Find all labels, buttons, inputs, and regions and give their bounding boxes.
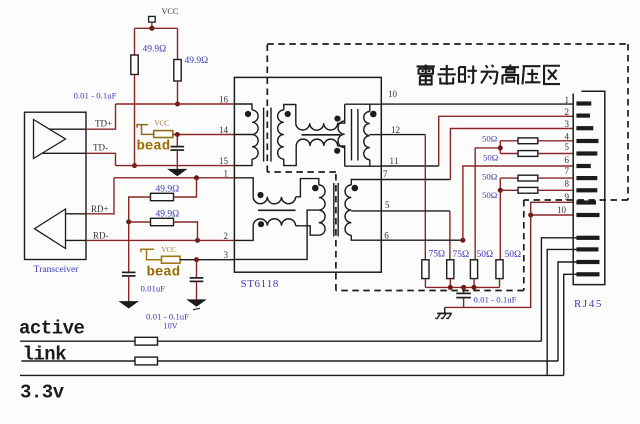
resistor R1 49.9ohm body [131, 55, 138, 75]
wire pair45 node to R7 [475, 148, 500, 260]
capacitor C1 [171, 146, 185, 148]
junction pair45 node [498, 145, 503, 150]
svg-text:bead: bead [137, 139, 171, 155]
capacitor C1 lead [176, 135, 178, 147]
wire C4 to chassis [445, 298, 464, 308]
svg-text:14: 14 [219, 125, 229, 135]
svg-text:7: 7 [383, 169, 388, 179]
resistor R6 75ohm body [447, 260, 454, 279]
T3 left winding [319, 185, 325, 235]
wire RD- pin2 line [86, 239, 234, 241]
wire RJ45 pin9 shield [531, 202, 574, 215]
wire RJ5 left lead [500, 153, 518, 155]
svg-text:RD-: RD- [93, 230, 109, 240]
svg-text:3: 3 [224, 250, 229, 260]
junction pin6 corner [460, 238, 465, 243]
transformer ST6118 box [234, 77, 381, 272]
wire pin7 stub [381, 179, 450, 181]
resistor R10 body [135, 357, 158, 365]
capacitor C3 [190, 277, 204, 279]
junction VCC rail [149, 26, 154, 31]
wire pin11 riser to RJ45 pin2 [439, 116, 574, 166]
svg-text:VCC: VCC [162, 246, 177, 254]
T2 left winding [338, 121, 345, 148]
wire C2 to ground [128, 276, 130, 302]
svg-text:75Ω: 75Ω [429, 250, 446, 260]
svg-text:active: active [19, 318, 85, 340]
title qu (zone) [544, 66, 560, 84]
wire R2 to pin16 line [177, 81, 179, 104]
svg-text:1: 1 [565, 95, 570, 105]
svg-text:49.9Ω: 49.9Ω [156, 209, 180, 219]
wire 3.3v line [20, 374, 564, 376]
wire chassis to RJ45 shield [464, 215, 531, 307]
choke CM1 core bar [302, 134, 341, 136]
T1 secondary winding [278, 110, 284, 159]
wire T2 right top to pin10 [369, 104, 371, 111]
svg-text:11: 11 [390, 156, 399, 166]
junction R4 on rail [126, 219, 131, 224]
junction R2 on pin16 line [175, 102, 180, 107]
power VCC terminal [149, 16, 156, 22]
svg-text:10: 10 [388, 89, 398, 99]
resistor R5 75ohm body [422, 260, 429, 279]
wire RJ4 left lead [500, 140, 518, 142]
wire R4 right lead to pin2 [174, 222, 198, 240]
wire VCC rail [135, 27, 178, 29]
svg-text:8: 8 [565, 178, 570, 188]
wire 3.3v riser A [547, 249, 578, 375]
T3 left dot [312, 185, 319, 192]
capacitor C4 [456, 292, 471, 294]
RJ45 contact bar 11 [576, 236, 599, 240]
wire link riser [558, 262, 578, 361]
wire T3 right top to pin7 [351, 180, 381, 186]
T2 core [351, 109, 353, 161]
wire TD- stub [42, 152, 86, 154]
title shi (time) [459, 66, 477, 84]
wire C1 to ground [176, 150, 178, 169]
wire C3 to ground [196, 281, 198, 299]
junction R1 on pin15 line [132, 163, 137, 168]
wire pin5 center tap [351, 210, 381, 212]
wire Rd to RJ45 pin8 [538, 189, 573, 191]
choke CM2 bottom dot [258, 221, 264, 227]
T1 primary dot [245, 111, 251, 117]
junction tie R6 [448, 285, 453, 290]
svg-text:0.01uF: 0.01uF [141, 284, 166, 294]
wire pin1 into box to choke CM2 [234, 178, 253, 197]
svg-text:3.3v: 3.3v [20, 382, 65, 404]
svg-text:12: 12 [391, 125, 400, 135]
wire pin11 stub [381, 165, 438, 167]
svg-text:5: 5 [565, 142, 570, 152]
capacitor C2 [122, 271, 136, 273]
T1 primary winding [252, 110, 258, 159]
RJ45 connector body [573, 91, 605, 284]
svg-text:75Ω: 75Ω [453, 250, 470, 260]
wire R8 bottom lead [499, 279, 501, 288]
wire pin6 stub [381, 239, 463, 241]
RJ45 contact bar 7 [576, 176, 597, 180]
wire pin14 line [173, 134, 235, 136]
RJ45 contact bar 1 [576, 101, 591, 105]
wire T3 right bottom to pin6 [351, 235, 381, 240]
svg-text:2: 2 [565, 107, 570, 117]
svg-text:5: 5 [385, 200, 390, 210]
wire T2 right bottom to pin11 [369, 160, 371, 167]
wire choke CM2 bottom to T3 [296, 226, 319, 235]
choke CM1 bottom winding [296, 139, 337, 146]
wire TD+ stub [49, 128, 86, 130]
T1 core [263, 108, 265, 162]
svg-text:RJ45: RJ45 [574, 298, 603, 310]
junction cap C1 on pin14 line [175, 132, 180, 137]
wire pin10 to RJ45 pin1 [381, 103, 573, 105]
capacitor C4 lead [463, 287, 465, 293]
T3 right winding [345, 185, 351, 235]
RJ45 contact bar 10 [576, 213, 599, 217]
tx driver triangle [34, 120, 66, 159]
RJ45 contact bar 13 [576, 260, 599, 264]
wire R4 left lead [129, 221, 151, 223]
high voltage zone dashed boundary [267, 43, 628, 45]
wire VCC to R2 [177, 28, 179, 59]
wire pin6 riser to RJ45 pin6 [463, 166, 573, 240]
resistor Rb 50ohm body [518, 151, 538, 157]
svg-text:2: 2 [224, 231, 229, 241]
wire RD- stub [66, 239, 87, 241]
svg-text:3: 3 [565, 119, 570, 129]
wire Rb to RJ45 pin5 [538, 153, 573, 155]
junction R3 on pin1 line [194, 175, 199, 180]
T2 right winding [364, 112, 370, 160]
junction cap C3 on pin3 line [194, 257, 199, 262]
wire pin10 inside box [345, 103, 382, 105]
wire R6 bottom lead [449, 279, 451, 288]
resistor Rc 50ohm body [518, 175, 538, 181]
svg-text:VCC: VCC [155, 120, 170, 128]
choke CM2 top dot [257, 192, 263, 198]
bead L2 body [162, 256, 181, 263]
wire active line [20, 340, 541, 342]
svg-text:0.01 - 0.1uF: 0.01 - 0.1uF [474, 294, 517, 304]
svg-text:TD+: TD+ [95, 118, 112, 128]
wire pin12 down to R5 [424, 135, 426, 260]
wire R3 right lead to pin1 [174, 178, 197, 197]
title lei (thunder) [417, 65, 435, 85]
wire R7 bottom lead [473, 279, 475, 288]
wire pin12 center tap [370, 134, 382, 136]
resistor R8 50ohm body [496, 260, 503, 279]
choke CM2 bottom winding [253, 219, 295, 226]
wire T2 left bottom [338, 146, 345, 166]
ground G3 [188, 300, 206, 307]
resistor R9 body [135, 337, 158, 345]
wire choke CM2 top to T3 [296, 179, 319, 197]
wire pair45 tie [499, 141, 501, 154]
svg-text:16: 16 [219, 95, 229, 105]
wire R1 to pin15 line [134, 75, 136, 166]
svg-text:50Ω: 50Ω [483, 152, 499, 162]
wire RJ45 pin10 shield [531, 214, 574, 216]
junction R4 on pin2 line [195, 238, 200, 243]
svg-text:4: 4 [565, 131, 570, 141]
T3 right dot [352, 185, 359, 192]
resistor Rd 50ohm body [518, 187, 538, 193]
RJ45 contact bar 4 [576, 139, 598, 143]
RJ45 contact bar 12 [576, 247, 598, 251]
wire pin3 line [180, 259, 234, 261]
wire VCC to R1 [134, 28, 136, 55]
wire choke to T2 left winding [338, 104, 345, 123]
wire pin7 riser to RJ45 pin3 [450, 129, 573, 180]
svg-text:49.9Ω: 49.9Ω [156, 184, 180, 194]
svg-text:link: link [23, 343, 67, 365]
T2 right dot [370, 111, 377, 118]
wire RD+ to pin1 line [86, 178, 114, 214]
svg-text:Transceiver: Transceiver [34, 265, 80, 275]
wire 3.3v riser B [564, 274, 578, 375]
svg-text:49.9Ω: 49.9Ω [185, 56, 209, 66]
ground G2 [120, 302, 138, 309]
rx receiver triangle [35, 209, 66, 249]
svg-text:0.01 - 0.1uF: 0.01 - 0.1uF [146, 312, 189, 322]
wire TD+ to pin16 line [86, 104, 116, 129]
svg-text:ST6118: ST6118 [241, 278, 279, 290]
junction shield node [528, 213, 533, 218]
title ya (pressure) [522, 66, 540, 84]
svg-text:15: 15 [219, 156, 229, 166]
choke CM1 top winding [296, 123, 338, 130]
title wei (for) [481, 65, 498, 84]
wire pin15 into box [234, 159, 252, 166]
bead L1 body [154, 131, 173, 138]
resistor R2 49.9ohm body [174, 60, 181, 82]
wire RJ8 left lead [500, 189, 518, 191]
wire pin5 stub [381, 210, 450, 212]
RJ45 contact bar 2 [576, 114, 590, 118]
RJ45 contact bar 3 [576, 126, 593, 130]
svg-text:10: 10 [557, 205, 567, 215]
svg-text:50Ω: 50Ω [505, 250, 522, 260]
wire pin15 line [116, 165, 235, 167]
wire pair78 node to R8 [499, 190, 501, 259]
ground G1 [168, 169, 186, 176]
svg-text:7: 7 [565, 166, 570, 176]
wire TD- jog [86, 153, 116, 165]
choke CM2 top winding [253, 197, 295, 204]
RJ45 contact bar 5 [576, 151, 597, 155]
bead L2 VCC bracket [141, 249, 154, 252]
wire T1 secondary top to choke [284, 105, 296, 124]
resistor R4 49.9ohm body [151, 218, 174, 225]
wire termination tie [425, 286, 499, 288]
capacitor C3 lead [196, 260, 198, 278]
svg-text:50Ω: 50Ω [482, 133, 498, 143]
svg-text:TD-: TD- [93, 142, 108, 152]
title ji (strike) [438, 65, 456, 85]
chassis ground [444, 307, 446, 313]
svg-text:RD+: RD+ [91, 204, 109, 214]
wire pin16 line [116, 103, 235, 105]
wire pin12 stub [381, 134, 425, 136]
resistor R3 49.9ohm body [151, 193, 174, 200]
wire RJ7 left lead [500, 177, 518, 179]
svg-text:10V: 10V [164, 322, 178, 331]
RJ45 contact bar 6 [576, 164, 590, 168]
svg-text:bead: bead [147, 265, 181, 281]
wire T1 secondary bottom to choke [284, 146, 296, 166]
bead L1 VCC bracket [137, 125, 148, 128]
svg-text:6: 6 [384, 231, 389, 241]
resistor Ra 50ohm body [518, 138, 538, 144]
junction tie R7 [472, 285, 477, 290]
transceiver box [25, 112, 87, 259]
junction pair78 node [498, 188, 503, 193]
svg-text:0.01 - 0.1uF: 0.01 - 0.1uF [74, 91, 117, 101]
junction tie cap [461, 285, 466, 290]
RJ45 contact bar 14 [576, 272, 599, 276]
wire Rc to RJ45 pin7 [538, 177, 573, 179]
wire R3 left lead to rail [129, 197, 151, 272]
wire pin3 into box center tap [234, 210, 318, 259]
choke CM1 top dot [334, 116, 340, 122]
wire pin16 into box [234, 104, 252, 110]
choke CM2 core bar [258, 209, 296, 211]
svg-text:50Ω: 50Ω [482, 190, 498, 200]
choke CM1 bottom dot [334, 148, 340, 154]
svg-text:6: 6 [565, 155, 570, 165]
RJ45 contact bar 9 [576, 200, 596, 204]
RJ45 contact bar 8 [576, 188, 597, 192]
wire Ra to RJ45 pin4 [538, 140, 573, 142]
title gao (high) [501, 65, 519, 85]
svg-text:49.9Ω: 49.9Ω [143, 45, 167, 55]
wire pin14 center tap [234, 134, 252, 136]
wire pin1 line [114, 177, 234, 179]
wire pair78 tie [499, 178, 501, 190]
T1 secondary dot [285, 111, 291, 117]
wire pin11 inside box [345, 165, 382, 167]
wire RD+ stub [66, 213, 87, 215]
svg-text:50Ω: 50Ω [482, 171, 498, 181]
svg-text:VCC: VCC [162, 7, 179, 16]
T3 core [333, 183, 335, 237]
resistor R7 50ohm body [470, 260, 477, 279]
wire pin5 down to R6 [449, 211, 451, 260]
wire R5 bottom lead [424, 279, 426, 288]
svg-text:50Ω: 50Ω [477, 250, 494, 260]
svg-text:1: 1 [224, 168, 229, 178]
wire link line [21, 360, 558, 362]
wire active riser [541, 238, 578, 341]
wire pin2 into box [234, 226, 253, 241]
